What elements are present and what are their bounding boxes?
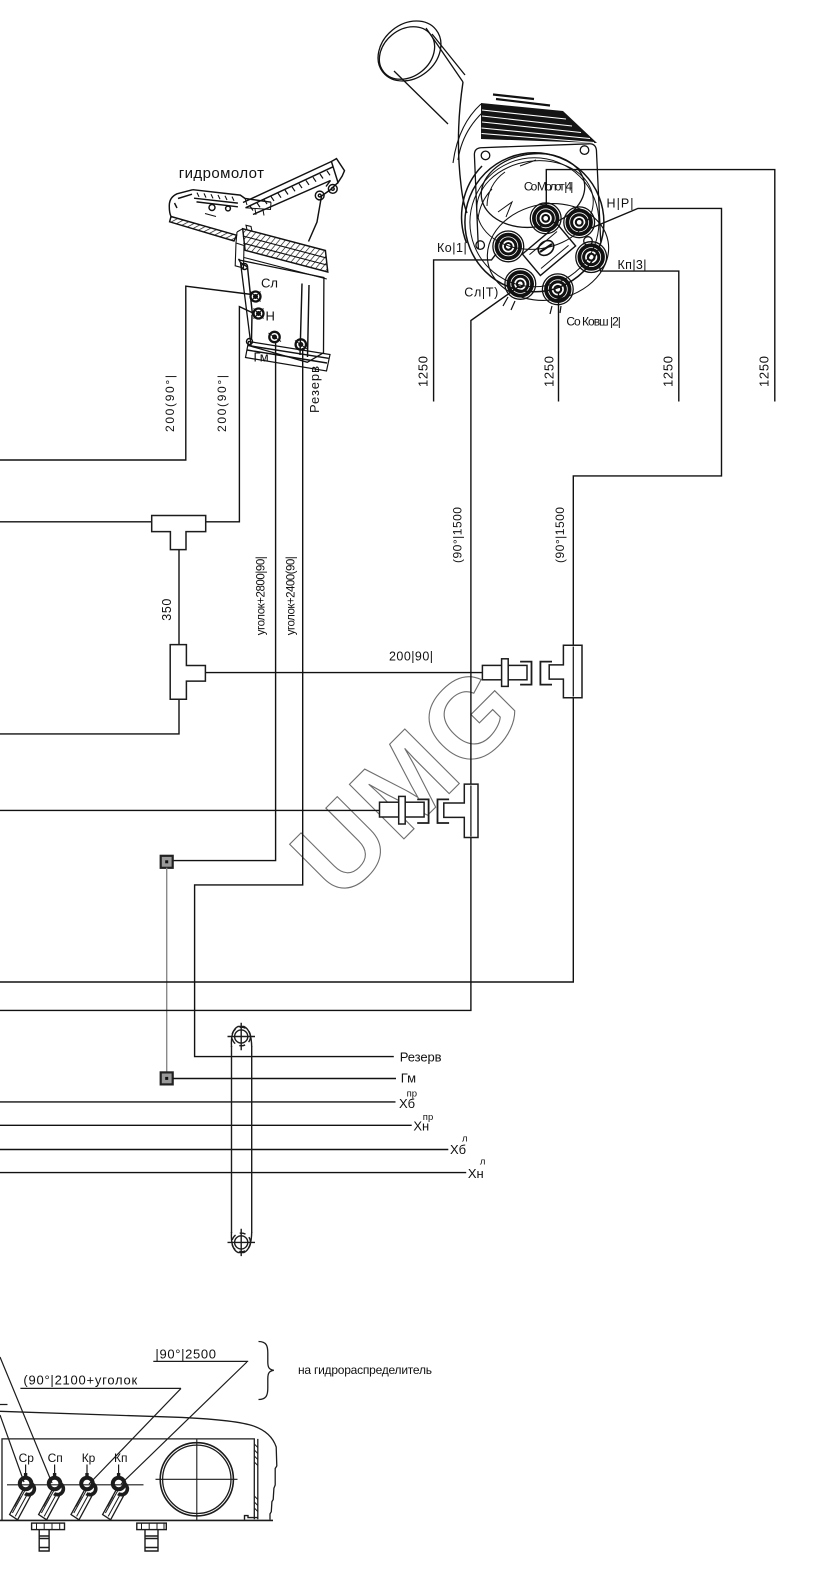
bottom machine body bbox=[0, 1411, 277, 1551]
svg-text:350: 350 bbox=[160, 599, 174, 621]
tee T1 bbox=[152, 516, 206, 550]
wire hammer Н port to tee T1 (200(90°|) bbox=[206, 307, 253, 522]
corner angle bracket bbox=[245, 1516, 258, 1520]
node square marker M2 bbox=[161, 1072, 173, 1084]
svg-text:Кп|3|: Кп|3| bbox=[618, 258, 647, 272]
svg-text:Гм: Гм bbox=[401, 1071, 416, 1086]
svg-text:(90°|1500: (90°|1500 bbox=[451, 507, 465, 563]
wire joystick Со Ковш|2| port, 1250 drop bbox=[558, 292, 560, 402]
flange screws bbox=[481, 151, 490, 160]
port S (Со Ковш) bbox=[542, 274, 573, 305]
wire hammer Гм port down bbox=[173, 341, 276, 861]
bolt 1 bbox=[32, 1523, 65, 1551]
tee T3 bbox=[549, 645, 582, 698]
hammer port Сл bbox=[251, 292, 261, 302]
svg-text:уголок+2400(90|: уголок+2400(90| bbox=[286, 556, 298, 635]
hammer port Резерв bbox=[295, 339, 307, 349]
svg-text:уголок+2800|90|: уголок+2800|90| bbox=[255, 556, 267, 635]
svg-text:1250: 1250 bbox=[756, 356, 771, 387]
svg-text:Сл: Сл bbox=[261, 276, 278, 291]
arm hatch ticks bbox=[250, 171, 330, 211]
svg-text:|90°|2500: |90°|2500 bbox=[155, 1347, 216, 1362]
hammer plate hatched edge bbox=[170, 217, 237, 242]
svg-text:Резерв: Резерв bbox=[400, 1049, 442, 1064]
hammer top plate bbox=[169, 190, 271, 217]
svg-text:1250: 1250 bbox=[415, 356, 430, 387]
base cup bbox=[465, 153, 604, 292]
svg-text:Кп: Кп bbox=[114, 1451, 128, 1465]
svg-text:Н|Р|: Н|Р| bbox=[607, 197, 634, 211]
svg-text:гидромолот: гидромолот bbox=[179, 165, 264, 182]
coupling CP1 female jaws bbox=[520, 662, 552, 685]
port fitting Сп bbox=[39, 1465, 64, 1520]
wire Хн-л line bbox=[0, 1172, 466, 1174]
svg-text:пр: пр bbox=[407, 1088, 417, 1099]
hammer port Гм bbox=[269, 332, 282, 342]
svg-text:1250: 1250 bbox=[541, 356, 556, 387]
hammer block ear holes bbox=[242, 264, 248, 270]
hammer bottom flange bbox=[246, 342, 331, 372]
ports centre line bbox=[7, 1484, 144, 1486]
svg-text:200|90|: 200|90| bbox=[389, 650, 433, 664]
wire 350 link T1-T2 bbox=[178, 550, 180, 645]
svg-text:на гидрораспределитель: на гидрораспределитель bbox=[298, 1363, 432, 1377]
dome ellipses bbox=[476, 147, 589, 234]
hammer plate screw holes bbox=[209, 205, 215, 211]
body bottom edge bbox=[0, 1519, 273, 1521]
hydraulic hammer block (гидромолот) bbox=[169, 159, 344, 371]
wall section hatch bbox=[254, 1444, 257, 1512]
curly brace bbox=[259, 1342, 274, 1400]
dome detail arcs bbox=[478, 160, 536, 219]
svg-text:Сп: Сп bbox=[48, 1451, 63, 1465]
link plate connector bbox=[228, 1023, 256, 1256]
wire tee T1 left exit bbox=[0, 521, 152, 523]
hammer port Н bbox=[254, 309, 264, 319]
coupling CP1 male half bbox=[482, 659, 527, 687]
tee T2 bbox=[170, 645, 205, 700]
wire Гм to right label bbox=[173, 1078, 396, 1080]
tees and couplings bbox=[152, 516, 582, 838]
port SW (Сл|Т) bbox=[505, 269, 536, 300]
bolt 2 bbox=[137, 1523, 167, 1551]
joystick flange plate bbox=[474, 144, 601, 249]
joystick shaft bbox=[394, 28, 465, 124]
wire joystick Кп|3| port, 1250 drop bbox=[599, 264, 679, 402]
body outer contour bbox=[0, 1411, 277, 1519]
svg-text:(90°|1500: (90°|1500 bbox=[553, 507, 567, 563]
wire joystick Со Молот|4| port up and right, 1250 drop bbox=[546, 170, 775, 402]
coupling CP2 female jaws bbox=[417, 799, 449, 823]
hammer arm bbox=[243, 162, 333, 215]
port W (Ко|1) bbox=[493, 231, 524, 262]
svg-text:л: л bbox=[462, 1133, 468, 1144]
port fitting Ср bbox=[10, 1465, 35, 1520]
wire hammer Сл port to left edge (200(90°|) bbox=[0, 286, 252, 460]
port fitting Кп bbox=[103, 1465, 128, 1520]
wire joystick Сл|Т port through tee T4 to left edge bbox=[0, 287, 519, 1011]
svg-text:Н: Н bbox=[266, 309, 275, 324]
wire hammer Резерв port down to label bbox=[195, 348, 394, 1057]
hose lines network bbox=[0, 170, 775, 1173]
joystick knob bbox=[366, 9, 453, 94]
port E (Кп|3) bbox=[576, 242, 607, 273]
svg-text:1250: 1250 bbox=[660, 356, 675, 387]
bottom eye bbox=[228, 1229, 256, 1256]
wire Хб-пр line bbox=[0, 1101, 396, 1103]
hammer fin stack bbox=[243, 229, 328, 272]
svg-text:Хн: Хн bbox=[468, 1166, 484, 1181]
svg-text:200(90°|: 200(90°| bbox=[163, 375, 177, 432]
svg-text:Резерв: Резерв bbox=[307, 366, 322, 413]
node square marker M1 bbox=[161, 856, 173, 868]
svg-text:Со Ковш |2|: Со Ковш |2| bbox=[566, 315, 621, 329]
wire grey link between markers bbox=[166, 868, 168, 1073]
svg-text:Хб: Хб bbox=[450, 1142, 466, 1157]
wire T2 bottom to left edge bbox=[0, 699, 179, 734]
svg-text:л: л bbox=[480, 1156, 486, 1167]
svg-text:200(90°|: 200(90°| bbox=[215, 375, 229, 432]
port N (Со Молот) bbox=[530, 203, 561, 234]
centre block bbox=[522, 224, 575, 275]
port NE (Н|Р) bbox=[564, 207, 595, 238]
tee T4 bbox=[444, 784, 478, 837]
svg-text:(90°|2100+уголок: (90°|2100+уголок bbox=[23, 1373, 137, 1388]
svg-text:Сл|Т): Сл|Т) bbox=[464, 286, 498, 300]
svg-text:Ко|1|: Ко|1| bbox=[437, 241, 467, 255]
wire coupling CP2 from left edge bbox=[0, 809, 380, 811]
wire Хб-л line bbox=[0, 1149, 448, 1151]
hammer bracket between plate and arm bbox=[245, 199, 271, 216]
wire joystick Н|Р| port long run to left edge bbox=[0, 208, 722, 982]
coupling CP2 male half bbox=[380, 796, 425, 824]
hammer valve block bbox=[239, 259, 324, 362]
big hole circle bbox=[156, 1439, 238, 1520]
svg-text:Со Молот |4|: Со Молот |4| bbox=[524, 180, 574, 194]
wire Хн-пр line bbox=[0, 1124, 412, 1126]
top eye bbox=[228, 1023, 256, 1050]
svg-text:Кр: Кр bbox=[82, 1451, 96, 1465]
svg-text:Гм: Гм bbox=[254, 350, 269, 365]
link plate outline bbox=[232, 1046, 252, 1233]
joystick bellows bbox=[481, 103, 597, 143]
port fitting Кр bbox=[71, 1465, 96, 1520]
wire T2 to coupling CP1 (200|90|) bbox=[205, 672, 482, 674]
svg-text:Ср: Ср bbox=[19, 1451, 35, 1465]
joystick (pilot control) bbox=[366, 9, 616, 314]
watermark UMG bbox=[268, 641, 548, 921]
wire joystick Ко|1| port, 1250 drop bbox=[434, 254, 496, 402]
leader diagonals from left edge bbox=[0, 1357, 52, 1483]
body inner rect bbox=[2, 1439, 258, 1520]
svg-text:пр: пр bbox=[423, 1112, 433, 1123]
